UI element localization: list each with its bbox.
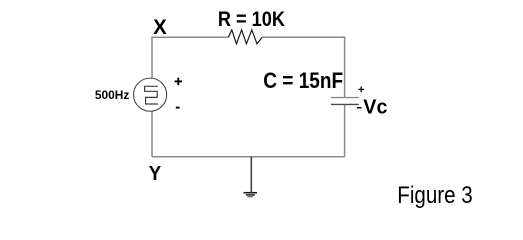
svg-text:500Hz: 500Hz [95,88,129,102]
svg-text:R = 10K: R = 10K [218,8,286,32]
svg-text:X: X [153,16,167,40]
svg-text:Vc: Vc [363,96,387,118]
svg-text:Y: Y [149,162,161,185]
svg-text:Figure 3: Figure 3 [397,182,472,209]
svg-text:C = 15nF: C = 15nF [263,69,343,94]
